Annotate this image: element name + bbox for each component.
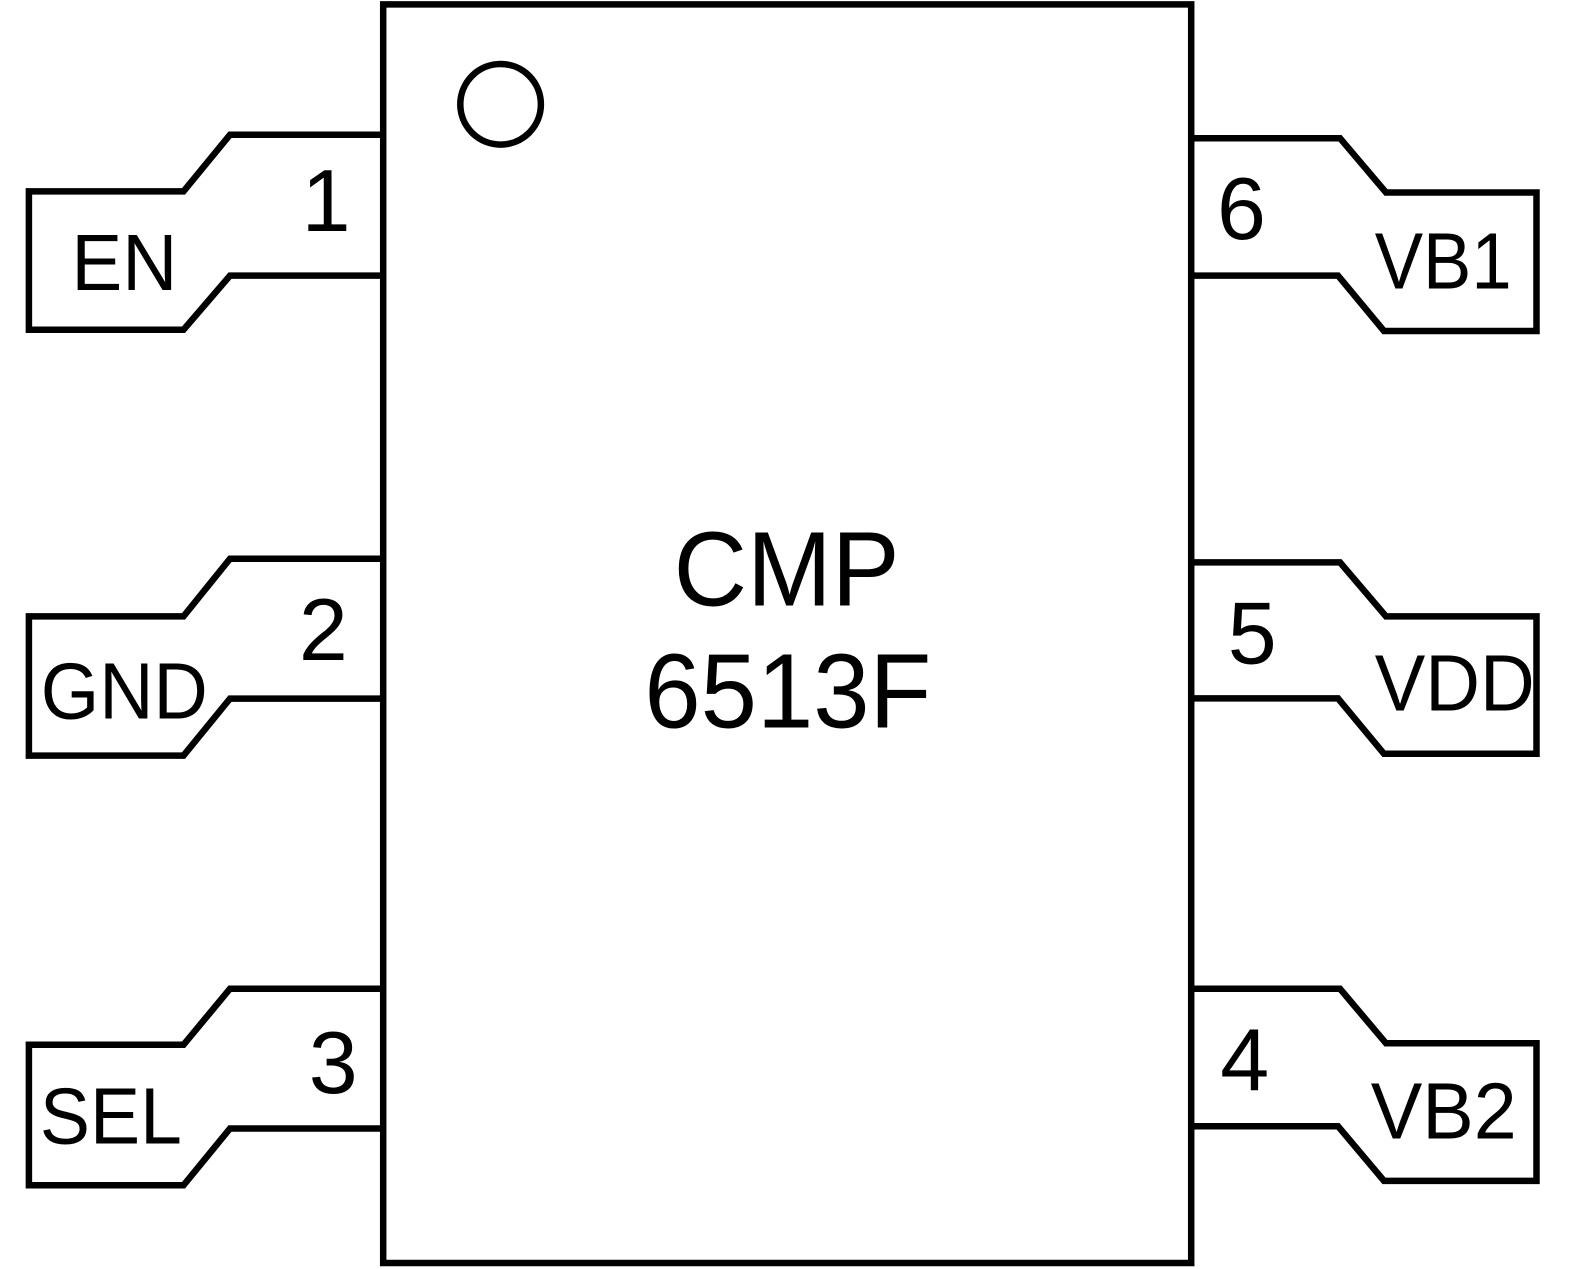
svg-text:CMP: CMP <box>674 511 900 629</box>
svg-text:3: 3 <box>309 1013 358 1112</box>
svg-text:2: 2 <box>299 580 348 679</box>
IC body U1 <box>383 4 1191 1263</box>
svg-text:EN: EN <box>71 218 177 307</box>
svg-text:VDD: VDD <box>1375 639 1535 728</box>
svg-text:4: 4 <box>1220 1011 1269 1110</box>
svg-text:VB1: VB1 <box>1375 217 1512 306</box>
svg-text:1: 1 <box>302 151 351 250</box>
pin 1 flag (EN) <box>29 135 383 330</box>
svg-text:6: 6 <box>1217 159 1266 258</box>
pin 4 flag (VB2) <box>1191 989 1536 1181</box>
svg-text:GND: GND <box>41 647 208 736</box>
pin 2 flag (GND) <box>29 559 383 756</box>
svg-text:6513F: 6513F <box>644 633 931 751</box>
svg-text:VB2: VB2 <box>1371 1067 1517 1156</box>
pin 3 flag (SEL) <box>29 989 383 1186</box>
svg-text:5: 5 <box>1228 583 1277 682</box>
pin 5 flag (VDD) <box>1191 562 1536 753</box>
pin 6 flag (VB1) <box>1191 138 1536 331</box>
pin-1 indicator circle <box>460 64 541 145</box>
svg-text:SEL: SEL <box>40 1072 182 1161</box>
